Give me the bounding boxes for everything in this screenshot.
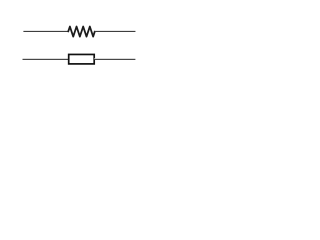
wire left lead of R1 bbox=[23, 30, 68, 32]
wire right lead of R1 bbox=[95, 30, 136, 32]
background bbox=[0, 0, 160, 87]
wire left lead of R2 bbox=[23, 58, 69, 60]
resistor R2 (IEC box symbol) bbox=[69, 54, 95, 63]
resistor R1 (ANSI zigzag symbol) bbox=[68, 27, 95, 37]
wire right lead of R2 bbox=[94, 58, 135, 60]
